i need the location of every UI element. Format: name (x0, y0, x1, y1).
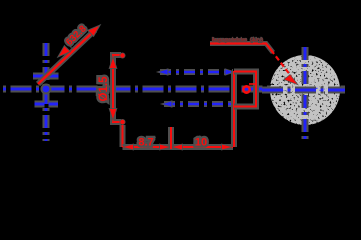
pinhole mount: long vertical line (231, 71, 237, 147)
image plane vertical dash-dot over disk halo (302, 47, 309, 139)
pinhole mount inner tick (249, 83, 255, 85)
dimension tick at x=171 (168, 127, 174, 149)
beam upper left arrowhead (159, 70, 168, 75)
axis segment re-drawn over disk (262, 87, 345, 94)
dimension D1 top dot (120, 53, 124, 57)
beam lower left arrowhead (163, 102, 172, 107)
dim arrow left of 10 (173, 145, 183, 150)
pinhole aperture circle (243, 86, 249, 92)
dimension chain baseline y=147 (123, 144, 234, 150)
lens L1 lower arm tick (35, 101, 59, 108)
dim arrow left of 8.7 (124, 145, 134, 150)
dimension D1 arrowhead up (110, 58, 116, 68)
dimension D1 bottom dot (120, 120, 124, 124)
lens L1 upper arm tick (33, 73, 59, 80)
leader arrow dashed part over disk (271, 50, 291, 76)
wire: extension line from bracket to dimension chain (120, 125, 126, 147)
image plane vertical dash-dot over disk (304, 47, 307, 139)
svg-text:8.7: 8.7 (138, 137, 153, 149)
lens L1 plane: vertical dash-dot line halo (43, 43, 50, 141)
node: lens center dot on axis (41, 84, 52, 95)
wire: main optical axis (blue dash-dot) halo (3, 86, 345, 93)
leader arrowhead into disk (285, 75, 298, 84)
ray: red diagonal ray through lens (38, 30, 95, 84)
dim arrow right of 10 (222, 145, 232, 150)
lens L1 plane: vertical dash-dot line (45, 43, 48, 141)
svg-text:Ø1.5: Ø1.5 (98, 76, 110, 102)
svg-text:Beugungsscheibchen: Beugungsscheibchen (212, 38, 247, 44)
wire: main optical axis (blue dash-dot) (3, 88, 345, 91)
beam upper right arrowhead (226, 70, 234, 75)
beam line lower (blue dash-dot) (164, 101, 232, 107)
dimension D1 arrowhead down (110, 109, 116, 119)
ray arrowhead middle pointing down-left (59, 47, 70, 57)
svg-text:10: 10 (195, 137, 207, 149)
focal spot: speckled gray disk (270, 55, 340, 125)
dimension D1: vertical line at x=113 (113, 55, 121, 122)
dim arrow right of 8.7 (160, 145, 170, 150)
ray arrowhead top end (89, 26, 100, 36)
leader line to focal spot (210, 44, 273, 53)
pinhole mount rectangle (234, 72, 256, 107)
svg-text:(Airy): (Airy) (250, 38, 263, 44)
beam line upper (blue dash-dot) (160, 69, 233, 75)
